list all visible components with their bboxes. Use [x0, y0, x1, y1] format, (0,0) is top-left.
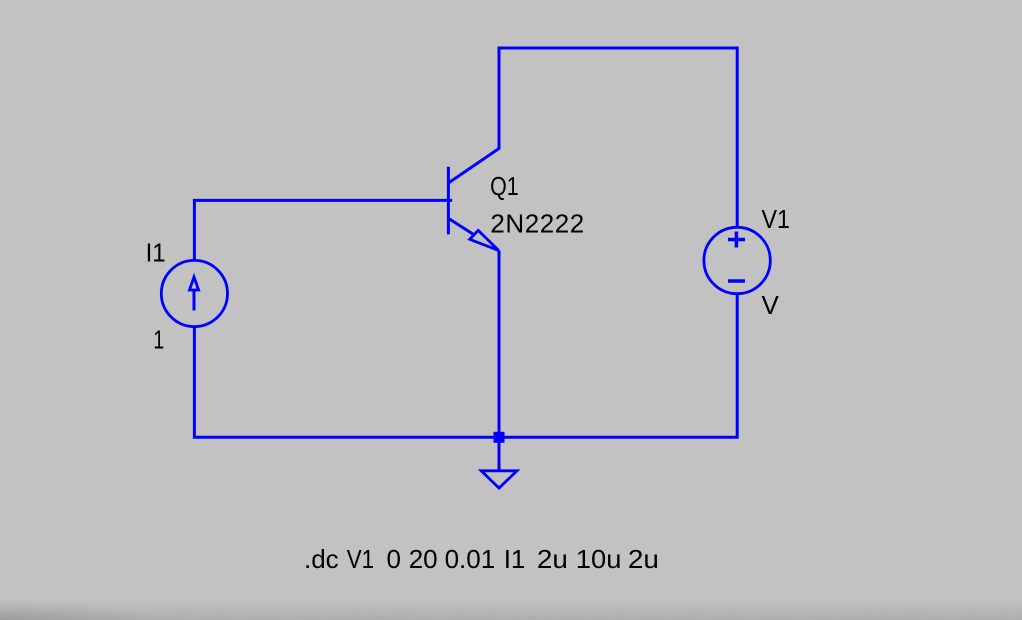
svg-text:2u: 2u: [628, 544, 659, 574]
svg-text:2u: 2u: [537, 544, 568, 574]
svg-text:I1: I1: [146, 237, 166, 267]
svg-text:.dc: .dc: [304, 544, 339, 574]
svg-text:V1: V1: [762, 204, 791, 234]
svg-text:I1: I1: [504, 544, 526, 574]
svg-text:V1: V1: [347, 544, 374, 574]
svg-text:1: 1: [153, 324, 164, 354]
svg-text:10u: 10u: [576, 544, 622, 574]
svg-text:0.01: 0.01: [445, 544, 496, 574]
svg-text:V: V: [762, 290, 780, 320]
svg-text:20: 20: [409, 544, 438, 574]
svg-text:Q1: Q1: [490, 171, 518, 201]
svg-text:2N2222: 2N2222: [490, 209, 584, 239]
svg-text:0: 0: [387, 544, 401, 574]
